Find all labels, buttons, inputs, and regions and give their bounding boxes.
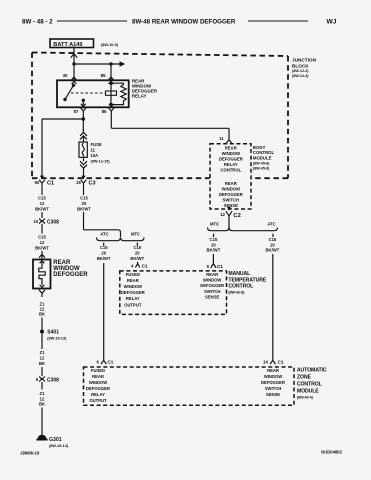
svg-text:C1: C1 — [217, 264, 223, 269]
svg-text:SENSE: SENSE — [205, 294, 219, 299]
svg-text:50: 50 — [35, 180, 40, 185]
svg-text:WINDOW: WINDOW — [222, 151, 240, 156]
relay coil parallel resistor — [111, 83, 126, 104]
wire: MTC right down to 5 C1 — [212, 254, 214, 264]
svg-text:10: 10 — [34, 219, 39, 224]
svg-text:C1: C1 — [47, 180, 54, 186]
split brace MTC/ATC (right) — [208, 227, 278, 230]
AZC switch sense text — [261, 368, 285, 397]
svg-text:JUNCTION: JUNCTION — [292, 58, 317, 63]
fuse labels FUSE 11 10A — [91, 142, 111, 164]
manual temperature control dashed box — [120, 271, 227, 315]
svg-text:CONTROL: CONTROL — [297, 382, 323, 388]
wire label C15 20 BK/WT (MTC right) — [207, 237, 221, 253]
svg-text:G301: G301 — [49, 437, 62, 443]
svg-text:RELAY: RELAY — [224, 162, 238, 167]
wire label Z1 12 BK (below defogger) — [39, 301, 45, 316]
wire: C308 down segment — [41, 382, 43, 390]
svg-text:20: 20 — [82, 201, 87, 206]
svg-text:C1: C1 — [278, 360, 284, 365]
wire: down to relay pin 30 — [71, 64, 77, 84]
svg-text:11: 11 — [91, 148, 96, 153]
svg-text:DEFOGGER: DEFOGGER — [200, 283, 224, 288]
svg-text:15: 15 — [76, 180, 81, 185]
svg-text:(8W-12-15): (8W-12-15) — [91, 160, 111, 164]
wire: down to relay pin 85 — [108, 64, 114, 84]
svg-text:FUSED: FUSED — [91, 368, 105, 373]
svg-text:12: 12 — [40, 240, 45, 245]
relay U1 rear window defogger relay box — [57, 80, 129, 107]
wire label C15 20 BK/WT (MTC left) — [130, 245, 144, 261]
MTC pin 4 fork — [135, 262, 139, 268]
connector C2 pin 12 exit arrow — [227, 207, 231, 211]
svg-text:REAR: REAR — [53, 260, 71, 266]
BCM switch sense text — [219, 181, 243, 208]
automatic zone control module label — [297, 368, 327, 400]
wire label C15 20 BK/WT (ATC right) — [266, 237, 280, 253]
wire: C2 down to split — [228, 220, 230, 229]
AZC pin 14 fork — [270, 360, 275, 364]
svg-text:REAR: REAR — [92, 374, 104, 379]
AZC pin 6 fork — [101, 360, 106, 364]
node: splice above relay pin 85 — [109, 62, 112, 65]
svg-text:SWITCH: SWITCH — [223, 198, 240, 203]
svg-text:(8W-12-3): (8W-12-3) — [292, 74, 309, 78]
svg-text:MANUAL: MANUAL — [228, 271, 251, 277]
fuse 11 body — [79, 142, 87, 157]
MTC pin 5 fork — [211, 264, 216, 268]
svg-text:20: 20 — [211, 242, 216, 247]
svg-text:WJD04802: WJD04802 — [321, 450, 343, 455]
connector C3 pin 15 exit arrow — [81, 176, 85, 180]
ground G301 — [36, 435, 68, 448]
svg-text:(8W-12-2): (8W-12-2) — [292, 69, 309, 73]
svg-text:FUSE: FUSE — [91, 142, 102, 147]
junction block label — [292, 58, 317, 79]
svg-text:REAR: REAR — [267, 368, 279, 373]
svg-text:WINDOW: WINDOW — [53, 266, 80, 272]
AZC relay output text — [86, 368, 110, 403]
svg-text:C15: C15 — [80, 196, 88, 201]
automatic zone control module dashed box — [84, 367, 295, 405]
svg-text:SENSE: SENSE — [266, 392, 280, 397]
svg-text:C1: C1 — [107, 360, 113, 365]
wire: pin 87 down to junction — [82, 111, 84, 120]
svg-text:(8W-15-14): (8W-15-14) — [49, 444, 69, 448]
svg-text:MTC: MTC — [131, 232, 140, 237]
header rule right — [248, 20, 308, 22]
svg-text:BK/WT: BK/WT — [130, 256, 144, 261]
svg-text:DEFOGGER: DEFOGGER — [261, 380, 285, 385]
svg-text:RELAY: RELAY — [126, 296, 140, 301]
svg-text:Z1: Z1 — [40, 391, 46, 396]
pin 87 connector fork — [80, 108, 86, 111]
relay contact to pin 87 — [82, 99, 85, 108]
wire label C15 12 BK/WT (below C308) — [35, 235, 49, 251]
svg-text:12: 12 — [220, 212, 225, 217]
BCM pin 11 fork — [226, 140, 232, 144]
svg-text:8W - 48 - 2: 8W - 48 - 2 — [22, 18, 53, 25]
node: splice above relay pin 30 — [72, 62, 75, 65]
MTC relay output text — [121, 272, 145, 308]
svg-text:86: 86 — [102, 109, 107, 114]
pin 86 connector fork — [108, 108, 114, 111]
in-line connector C308 pin 6 — [36, 377, 59, 384]
svg-text:WINDOW: WINDOW — [264, 374, 282, 379]
connector C3 pin 15 fork — [81, 180, 87, 187]
svg-text:AUTOMATIC: AUTOMATIC — [297, 368, 327, 374]
svg-text:(8W-42-8): (8W-42-8) — [228, 290, 245, 294]
relay contact common node (pin 30) — [72, 84, 75, 87]
svg-text:(8W-15-13): (8W-15-13) — [47, 336, 67, 340]
svg-text:30: 30 — [63, 73, 68, 78]
svg-text:TEMPERATURE: TEMPERATURE — [228, 277, 266, 283]
svg-text:(8W-45-9): (8W-45-9) — [253, 167, 270, 171]
svg-text:87: 87 — [74, 109, 79, 114]
svg-text:12: 12 — [40, 201, 45, 206]
svg-text:DEFOGGER: DEFOGGER — [121, 290, 145, 295]
wire: ATC right down to 14 C1 — [272, 254, 274, 360]
svg-text:MODULE: MODULE — [297, 389, 319, 395]
body control module label — [253, 145, 275, 171]
svg-text:BK/WT: BK/WT — [97, 256, 111, 261]
defogger label — [53, 260, 88, 278]
svg-text:C2: C2 — [233, 213, 240, 219]
svg-text:BK/WT: BK/WT — [77, 206, 91, 211]
off-page arrow — [120, 61, 126, 67]
BCM relay control text — [219, 145, 243, 172]
wire: down to connector C1 — [41, 119, 43, 176]
svg-text:C15: C15 — [38, 235, 46, 240]
svg-text:ATC: ATC — [100, 232, 108, 237]
wire label C15 20 BK/WT (ATC left) — [97, 245, 111, 261]
defogger output fork — [39, 290, 45, 297]
wire: fuse feed down from junction — [82, 119, 84, 133]
wire: C308 to defogger — [41, 224, 43, 254]
svg-text:OUTPUT: OUTPUT — [89, 398, 107, 403]
svg-text:SWITCH: SWITCH — [265, 386, 282, 391]
wire label C15 20 BK/WT (below C3) — [77, 196, 91, 212]
defogger input fork — [39, 254, 45, 259]
svg-text:(8W-45-8): (8W-45-8) — [253, 161, 270, 165]
svg-text:20: 20 — [270, 242, 275, 247]
junction block dashed outline — [32, 53, 288, 179]
svg-text:ZONE: ZONE — [297, 375, 312, 381]
svg-text:14: 14 — [263, 360, 268, 365]
svg-text:S401: S401 — [47, 330, 59, 336]
svg-text:C15: C15 — [100, 245, 108, 250]
MTC switch sense text — [200, 272, 224, 300]
svg-text:DEFOGGER: DEFOGGER — [219, 156, 243, 161]
svg-text:BLOCK: BLOCK — [292, 63, 309, 68]
connector C2 pin 12 fork — [226, 211, 232, 220]
svg-text:(8W-10-9): (8W-10-9) — [101, 43, 119, 47]
svg-text:REAR: REAR — [225, 145, 237, 150]
wire label Z1 12 BK (above C308 lower) — [39, 350, 45, 366]
svg-text:RELAY: RELAY — [132, 93, 147, 98]
svg-text:REAR: REAR — [127, 278, 139, 283]
svg-text:C1: C1 — [142, 264, 148, 269]
connector C1 pin 50 exit arrow — [40, 176, 44, 180]
MTC branch tick — [213, 234, 215, 237]
svg-text:FUSED: FUSED — [126, 272, 140, 277]
svg-text:BATT A149: BATT A149 — [53, 42, 82, 48]
body control module dashed box — [210, 144, 251, 209]
svg-text:BK/WT: BK/WT — [35, 206, 49, 211]
svg-text:DEFOGGER: DEFOGGER — [86, 386, 110, 391]
svg-text:C308: C308 — [47, 220, 59, 226]
svg-text:WINDOW: WINDOW — [124, 284, 142, 289]
MTC left tick — [136, 243, 138, 246]
svg-text:REAR: REAR — [206, 272, 218, 277]
wire segment — [41, 367, 43, 376]
svg-text:MODULE: MODULE — [253, 155, 272, 160]
wire: fuse output to C3 — [83, 168, 85, 176]
split brace ATC/MTC (left) — [97, 237, 145, 240]
svg-text:BK/WT: BK/WT — [35, 245, 49, 250]
connector C1 pin 50 fork — [39, 180, 45, 187]
wire: relay pin 86 to BCM pin 11 — [111, 111, 229, 140]
svg-text:(8W-42-4): (8W-42-4) — [297, 396, 314, 400]
svg-text:CONTROL: CONTROL — [220, 167, 241, 172]
wire: battery feed into junction block — [71, 48, 77, 65]
svg-text:20: 20 — [135, 250, 140, 255]
svg-text:OUTPUT: OUTPUT — [124, 302, 142, 307]
svg-text:BK/WT: BK/WT — [207, 248, 221, 253]
wire: down to ground — [41, 408, 43, 435]
svg-text:8W-48 REAR WINDOW DEFOGGER: 8W-48 REAR WINDOW DEFOGGER — [132, 18, 236, 25]
svg-text:C15: C15 — [133, 245, 141, 250]
wire: feed across to pin 85 — [74, 63, 120, 65]
wire label C15 12 BK/WT (upper left) — [35, 196, 49, 212]
wire label Z1 12 BK (below C308 lower) — [39, 391, 45, 407]
svg-text:12: 12 — [40, 356, 45, 361]
relay label — [132, 79, 158, 99]
svg-text:WINDOW: WINDOW — [89, 380, 107, 385]
svg-text:11: 11 — [219, 136, 224, 141]
svg-text:DEFOGGER: DEFOGGER — [53, 272, 88, 278]
fuse holder terminal (double chevron down) — [80, 157, 87, 168]
relay coil box — [106, 91, 117, 95]
svg-text:BK: BK — [39, 361, 45, 366]
svg-text:REAR: REAR — [225, 181, 237, 186]
relay armature — [65, 85, 74, 99]
svg-text:MTC: MTC — [210, 221, 219, 226]
relay mechanical link (dashed) — [71, 92, 106, 94]
manual temperature control label — [228, 271, 266, 294]
svg-text:C308: C308 — [47, 378, 59, 384]
svg-text:BK/WT: BK/WT — [266, 248, 280, 253]
ATC left tick — [103, 243, 105, 246]
svg-text:SENSE: SENSE — [224, 203, 238, 208]
svg-text:BK: BK — [39, 312, 45, 317]
wire: C1 to C308 — [41, 186, 43, 218]
svg-text:WINDOW: WINDOW — [203, 278, 221, 283]
node: junction below pin 87 — [82, 117, 86, 121]
relay fixed contact node — [63, 98, 66, 101]
svg-text:10A: 10A — [91, 153, 99, 158]
svg-text:SWITCH: SWITCH — [204, 289, 221, 294]
svg-text:85: 85 — [101, 73, 106, 78]
header rule left — [57, 20, 127, 22]
svg-text:WINDOW: WINDOW — [222, 187, 240, 192]
svg-text:C3: C3 — [89, 180, 96, 186]
wire: branch left toward C1 — [42, 118, 83, 120]
wire: ATC left down to 6 C1 — [103, 263, 105, 360]
svg-text:WJ: WJ — [327, 19, 337, 26]
svg-text:ATC: ATC — [267, 221, 275, 226]
svg-text:12: 12 — [40, 396, 45, 401]
relay coil wire pin85 to pin86 — [109, 80, 112, 106]
in-line connector C308 pin 10 — [34, 219, 60, 226]
svg-text:BK: BK — [39, 402, 45, 407]
svg-text:C15: C15 — [38, 196, 46, 201]
power source BATT A149 box — [50, 39, 94, 48]
splice S401 — [40, 318, 67, 341]
svg-text:20: 20 — [101, 250, 106, 255]
svg-text:CONTROL: CONTROL — [228, 284, 254, 290]
rear window defogger grid element — [33, 260, 51, 289]
ATC branch tick — [272, 234, 274, 237]
svg-text:RELAY: RELAY — [91, 392, 105, 397]
svg-text:Z1: Z1 — [40, 350, 46, 355]
wire: S401 down — [41, 334, 43, 350]
svg-text:J998W-19: J998W-19 — [20, 451, 40, 456]
svg-text:DEFOGGER: DEFOGGER — [219, 192, 243, 197]
wire: C3 down and over to split — [84, 186, 121, 237]
fuse holder terminal (double chevron up) — [80, 132, 87, 142]
